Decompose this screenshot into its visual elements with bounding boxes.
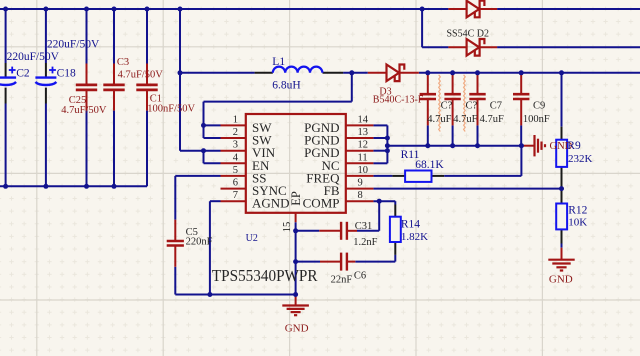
svg-text:C18: C18 bbox=[57, 68, 76, 80]
svg-text:C9: C9 bbox=[533, 100, 545, 111]
svg-text:GND: GND bbox=[285, 322, 309, 334]
svg-text:11: 11 bbox=[358, 152, 368, 163]
svg-text:C7: C7 bbox=[490, 100, 502, 111]
svg-text:2: 2 bbox=[233, 127, 238, 138]
svg-text:6.8uH: 6.8uH bbox=[272, 79, 300, 91]
svg-text:22nF: 22nF bbox=[331, 275, 353, 286]
svg-text:8: 8 bbox=[358, 190, 363, 201]
svg-text:220uF/50V: 220uF/50V bbox=[47, 38, 100, 50]
svg-text:4: 4 bbox=[233, 152, 239, 163]
svg-text:7: 7 bbox=[233, 190, 238, 201]
svg-text:15: 15 bbox=[282, 222, 293, 233]
svg-text:B540C-13-F: B540C-13-F bbox=[373, 95, 424, 106]
svg-text:10K: 10K bbox=[568, 216, 587, 228]
svg-text:220uF/50V: 220uF/50V bbox=[7, 51, 60, 63]
svg-text:1.82K: 1.82K bbox=[401, 231, 428, 243]
svg-text:4.7uF: 4.7uF bbox=[453, 114, 477, 125]
svg-text:3: 3 bbox=[233, 140, 238, 151]
svg-text:5: 5 bbox=[233, 165, 238, 176]
svg-text:220nF: 220nF bbox=[186, 237, 213, 248]
svg-text:COMP: COMP bbox=[303, 196, 340, 211]
svg-text:4.7uF/50V: 4.7uF/50V bbox=[118, 70, 164, 81]
svg-text:12: 12 bbox=[358, 140, 369, 151]
svg-text:TPS55340PWPR: TPS55340PWPR bbox=[212, 266, 318, 285]
svg-text:AGND: AGND bbox=[252, 196, 290, 211]
svg-text:68.1K: 68.1K bbox=[415, 159, 444, 171]
svg-text:6: 6 bbox=[233, 178, 238, 189]
svg-text:C31: C31 bbox=[355, 221, 373, 232]
svg-text:9: 9 bbox=[358, 178, 363, 189]
svg-text:4.7uF: 4.7uF bbox=[427, 114, 451, 125]
svg-text:14: 14 bbox=[358, 114, 369, 125]
svg-text:R9: R9 bbox=[567, 140, 581, 152]
svg-text:C6: C6 bbox=[354, 270, 366, 281]
svg-text:C2: C2 bbox=[16, 68, 30, 80]
svg-text:10: 10 bbox=[358, 165, 369, 176]
svg-text:L1: L1 bbox=[272, 56, 285, 68]
svg-text:232K: 232K bbox=[568, 153, 593, 165]
svg-text:R12: R12 bbox=[568, 205, 587, 217]
svg-text:100nF/50V: 100nF/50V bbox=[147, 104, 195, 115]
svg-text:100nF: 100nF bbox=[523, 114, 550, 125]
svg-text:13: 13 bbox=[358, 127, 369, 138]
svg-text:SS54C D2: SS54C D2 bbox=[447, 28, 490, 39]
svg-text:U2: U2 bbox=[246, 233, 258, 244]
svg-text:R14: R14 bbox=[401, 218, 420, 230]
svg-text:C?: C? bbox=[466, 100, 478, 111]
svg-text:1.2nF: 1.2nF bbox=[353, 237, 377, 248]
svg-text:C?: C? bbox=[441, 100, 453, 111]
svg-text:EP: EP bbox=[289, 191, 303, 206]
svg-text:4.7uF: 4.7uF bbox=[480, 114, 504, 125]
svg-text:C3: C3 bbox=[117, 57, 129, 68]
svg-text:4.7uF/50V: 4.7uF/50V bbox=[61, 105, 107, 116]
svg-text:GND: GND bbox=[549, 274, 573, 286]
svg-text:1: 1 bbox=[233, 114, 238, 125]
